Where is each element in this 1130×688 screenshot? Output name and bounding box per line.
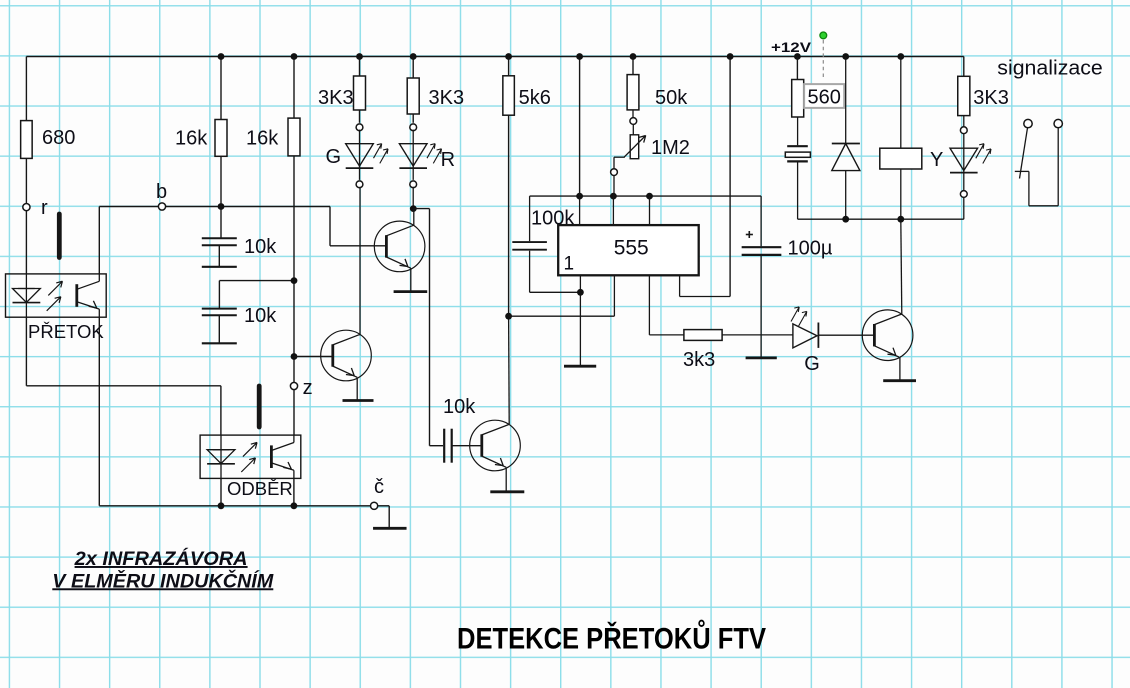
svg-text:r: r <box>41 197 48 219</box>
wire <box>900 169 902 219</box>
wire <box>219 280 293 282</box>
wire Q1 collector <box>413 209 415 226</box>
capacitor 10k second <box>202 308 237 310</box>
junction <box>410 53 417 60</box>
junction <box>218 502 225 509</box>
junction <box>842 216 849 223</box>
svg-text:10k: 10k <box>244 305 277 327</box>
junction <box>646 193 653 200</box>
wire <box>760 196 762 246</box>
junction <box>291 53 298 60</box>
wire <box>797 117 799 145</box>
svg-text:3K3: 3K3 <box>973 87 1009 109</box>
transistor Q3 <box>470 420 521 471</box>
optocoupler U1 PRETOK <box>6 274 107 317</box>
svg-text:G: G <box>804 353 820 375</box>
wire <box>25 317 27 386</box>
svg-text:10k: 10k <box>244 236 277 258</box>
svg-text:DETEKCE PŘETOKŮ FTV: DETEKCE PŘETOKŮ FTV <box>457 619 766 655</box>
transistor Q2 <box>321 330 372 381</box>
wire G LED to Q2 collector <box>359 168 361 180</box>
junction <box>842 53 849 60</box>
pin circle <box>611 169 618 176</box>
wire <box>796 57 798 80</box>
node b <box>158 203 165 210</box>
wire <box>293 57 295 119</box>
wire <box>632 124 634 134</box>
wire bottom rail <box>99 505 374 507</box>
pin circle <box>960 191 967 198</box>
wire <box>722 334 793 336</box>
wire <box>359 110 361 123</box>
resistor 560 <box>792 80 804 118</box>
junction <box>794 53 801 60</box>
capacitor 100u electrolytic <box>742 246 782 248</box>
wire <box>412 57 414 79</box>
svg-text:R: R <box>441 149 455 171</box>
pin circle <box>356 124 363 131</box>
svg-text:50k: 50k <box>655 87 688 109</box>
wire <box>797 163 799 220</box>
switch terminal right <box>1054 119 1062 127</box>
junction <box>630 53 637 60</box>
wire <box>632 57 634 75</box>
wire 555 pin to Q3 collector <box>613 275 615 316</box>
wire 555 top net <box>530 195 762 197</box>
wire <box>359 57 361 77</box>
wire Q2 emitter <box>356 377 358 400</box>
node c-caron <box>371 502 378 509</box>
wire relay bottom rail <box>798 218 964 220</box>
LED G output indicator <box>793 324 817 348</box>
wire 555 Vcc <box>679 275 681 296</box>
wire PRETOK emitter down <box>98 317 100 506</box>
svg-text:16k: 16k <box>246 128 279 150</box>
wire <box>613 176 615 197</box>
wire <box>845 171 847 220</box>
trimmer arrow <box>624 136 645 157</box>
wire <box>220 57 222 120</box>
wire to Q3 base cap <box>413 208 429 210</box>
junction <box>897 53 904 60</box>
ground <box>883 379 916 382</box>
switch contact <box>1015 170 1029 172</box>
svg-text:ODBĚR: ODBĚR <box>227 478 293 499</box>
optocoupler U2 ODBER <box>200 435 301 478</box>
junction <box>577 289 584 296</box>
wire Q1 emitter <box>410 268 412 291</box>
wire <box>900 57 902 149</box>
wire <box>845 57 847 144</box>
wire <box>220 156 222 206</box>
wire Q4 emitter <box>899 357 901 381</box>
svg-text:b: b <box>156 181 167 203</box>
svg-text:680: 680 <box>42 127 75 149</box>
junction <box>576 53 583 60</box>
plus sign <box>746 234 753 236</box>
IC U3 555 timer <box>558 225 699 275</box>
trimmer 1M2 <box>630 135 639 159</box>
wire 555 top pins <box>579 196 581 225</box>
junction node Q1 collector <box>410 205 417 212</box>
junction <box>291 353 298 360</box>
wire <box>412 168 414 180</box>
wire Q4 collector <box>901 219 902 314</box>
svg-text:3K3: 3K3 <box>429 87 465 109</box>
ground <box>202 266 237 268</box>
svg-text:signalizace: signalizace <box>997 58 1103 80</box>
wire Q3 emitter <box>505 467 507 492</box>
LED Y yellow indicator <box>963 134 965 149</box>
junction <box>218 203 225 210</box>
photo barrier mark 2 <box>257 386 262 427</box>
label box 560 <box>804 84 844 108</box>
wire <box>412 114 414 123</box>
pin circle <box>630 118 637 125</box>
wire <box>963 57 965 77</box>
resistor 16k first <box>215 120 227 157</box>
svg-text:1M2: 1M2 <box>651 137 690 159</box>
wire +12V top rail <box>26 56 963 58</box>
LED R red indicator <box>412 130 414 144</box>
ground <box>490 490 524 493</box>
svg-text:PŘETOK: PŘETOK <box>28 321 104 342</box>
switch blade <box>1020 128 1028 179</box>
wire <box>818 334 874 336</box>
junction <box>505 53 512 60</box>
svg-text:G: G <box>326 146 342 168</box>
resistor 50k <box>627 75 639 110</box>
wire <box>1028 171 1030 205</box>
capacitor under 560 <box>787 145 808 147</box>
resistor 3K3 yellow <box>958 76 970 115</box>
wire <box>220 207 222 238</box>
transistor Q4 <box>862 310 913 361</box>
ground <box>564 365 596 368</box>
wire rail to ODBER LED <box>26 385 221 387</box>
relay coil Y <box>880 148 922 169</box>
ground <box>746 356 777 359</box>
svg-text:+12V: +12V <box>771 40 811 55</box>
wire <box>963 116 965 127</box>
svg-text:č: č <box>374 476 384 498</box>
wire <box>378 505 390 507</box>
svg-text:560: 560 <box>808 87 841 109</box>
capacitor 10k first <box>202 237 237 239</box>
wire Q3 collector <box>508 316 511 424</box>
wire <box>760 256 762 357</box>
wire ODBER LED cathode <box>220 478 222 505</box>
wire Q2 base <box>294 356 333 358</box>
svg-text:555: 555 <box>614 237 649 260</box>
svg-text:3K3: 3K3 <box>318 87 354 109</box>
node z <box>290 382 297 389</box>
wire <box>632 110 634 118</box>
ground <box>373 527 407 530</box>
svg-text:Y: Y <box>930 149 943 171</box>
capacitor 100k <box>512 241 547 243</box>
ground <box>343 399 374 402</box>
resistor 3K3 red <box>407 78 419 114</box>
ground <box>202 342 237 344</box>
wire <box>25 158 27 274</box>
wire <box>529 251 531 293</box>
ground <box>394 290 428 293</box>
wire <box>963 173 965 191</box>
wire PRETOK collector up <box>98 207 100 274</box>
switch terminal left <box>1024 119 1032 127</box>
junction <box>897 216 904 223</box>
junction <box>727 53 734 60</box>
resistor 3k3 output <box>684 330 722 341</box>
resistor 3K3 green <box>354 76 366 110</box>
wire <box>508 115 510 316</box>
wire <box>293 156 295 435</box>
junction <box>610 193 617 200</box>
wire 100k branch <box>529 196 531 241</box>
wire <box>508 57 510 76</box>
LED G green indicator <box>359 130 361 144</box>
photo barrier mark 1 <box>57 214 62 258</box>
wire 555 pin1 to ground <box>579 275 581 365</box>
resistor 5k6 <box>503 76 514 115</box>
transistor Q1 <box>374 221 425 272</box>
svg-text:3k3: 3k3 <box>683 349 715 371</box>
wire ODBER emitter down <box>293 478 295 505</box>
resistor 680 <box>21 121 33 159</box>
svg-text:1: 1 <box>564 254 575 275</box>
svg-text:V ELMĚRU INDUKČNÍM: V ELMĚRU INDUKČNÍM <box>52 568 274 592</box>
capacitor 10k coupling <box>443 429 445 463</box>
junction <box>356 53 363 60</box>
svg-text:2x INFRAZÁVORA: 2x INFRAZÁVORA <box>74 547 248 570</box>
svg-text:5k6: 5k6 <box>519 87 551 109</box>
wire b rail <box>99 206 330 208</box>
svg-text:100µ: 100µ <box>788 238 833 260</box>
pin circle <box>960 127 967 134</box>
wire <box>579 57 581 197</box>
node r <box>23 204 30 211</box>
resistor 16k second <box>288 118 300 156</box>
pin circle <box>410 181 417 188</box>
svg-text:16k: 16k <box>175 128 208 150</box>
wire <box>25 57 27 121</box>
junction <box>291 502 298 509</box>
junction <box>291 277 298 284</box>
svg-text:10k: 10k <box>443 396 476 418</box>
wire 555 pin3 output <box>648 275 650 335</box>
junction <box>505 313 512 320</box>
dashed leader line <box>822 40 824 80</box>
pin circle <box>410 124 417 131</box>
diode flyback <box>832 143 860 145</box>
wire trimmer wiper <box>614 156 625 158</box>
pin circle <box>356 181 363 188</box>
junction <box>576 193 583 200</box>
svg-text:z: z <box>303 377 313 399</box>
junction <box>218 53 225 60</box>
wire <box>452 445 482 447</box>
green probe dot <box>820 32 827 39</box>
